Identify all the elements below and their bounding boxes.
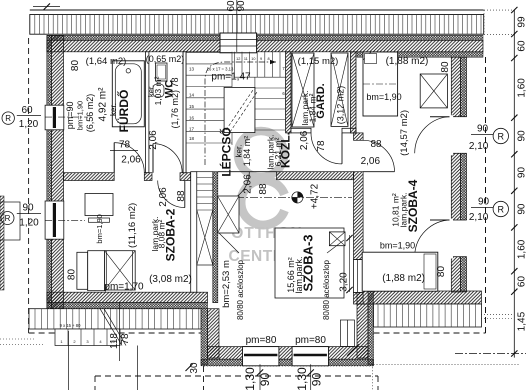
left wall <box>51 35 63 308</box>
GARD closet crossed boxes <box>292 53 314 127</box>
svg-text:9 x 15 + 80: 9 x 15 + 80 <box>60 323 82 328</box>
svg-text:2,06: 2,06 <box>121 155 141 166</box>
right wall <box>451 57 460 292</box>
svg-text:R: R <box>498 205 505 215</box>
SZOBA-3 big rect <box>275 228 344 298</box>
svg-text:ker.: ker. <box>146 85 155 97</box>
svg-text:pm=80: pm=80 <box>246 335 277 346</box>
wall GARD south <box>291 128 311 133</box>
svg-text:pm=80: pm=80 <box>295 335 326 346</box>
svg-text:2,06: 2,06 <box>158 187 169 207</box>
wall SZOBA-3/4 lower segment <box>354 292 364 304</box>
wall GARD / SZOBA-4 <box>351 52 357 133</box>
svg-text:90: 90 <box>258 373 272 387</box>
svg-text:8: 8 <box>268 57 270 61</box>
left wall insulation <box>47 35 52 308</box>
top wall inner insulation right part <box>357 52 483 57</box>
svg-text:60: 60 <box>21 105 33 116</box>
svg-text:60: 60 <box>516 40 527 52</box>
GARD door <box>311 133 342 164</box>
svg-text:pm=90: pm=90 <box>65 102 75 130</box>
exterior stairs lower steps 1-5 <box>55 329 120 346</box>
door right wall lower 90/2,10 <box>450 220 468 257</box>
wall between FURDO and WC <box>146 52 149 173</box>
WC fixtures <box>156 63 168 81</box>
door right wall upper 90/2,10 <box>450 117 468 154</box>
wall KOZL / SZOBA-4 with door opening <box>354 133 364 140</box>
svg-text:(1,88 m2): (1,88 m2) <box>386 56 429 67</box>
dotted reference lines top right <box>484 9 516 11</box>
SZOBA-2 door 88/2,06 <box>158 181 185 208</box>
dashed eaves outline left <box>28 38 30 333</box>
svg-text:(14,57 m2): (14,57 m2) <box>399 110 410 156</box>
FURDO bathtub <box>112 61 144 127</box>
svg-text:78: 78 <box>119 140 131 151</box>
bottom left dims 78/118 <box>119 302 121 361</box>
level marker +4,72 <box>292 192 303 203</box>
floor edge line KOZL-SZOBA3 <box>218 171 277 173</box>
svg-text:80: 80 <box>436 266 447 278</box>
svg-text:bm=1,90: bm=1,90 <box>366 92 401 102</box>
svg-text:80: 80 <box>70 60 81 72</box>
bay left wall insulation <box>201 309 208 365</box>
wall between WC and stair <box>183 52 186 173</box>
svg-text:90: 90 <box>478 197 490 208</box>
svg-text:12: 12 <box>236 57 240 61</box>
bay right wall <box>357 304 368 358</box>
svg-text:13: 13 <box>189 66 195 71</box>
svg-text:30: 30 <box>189 362 200 374</box>
svg-text:(11,16 m2): (11,16 m2) <box>127 203 138 248</box>
roof eaves band <box>30 9 484 11</box>
bottom bay dimension chains <box>259 364 261 390</box>
SZOBA-4 crossed box top right <box>420 74 447 108</box>
svg-text:90: 90 <box>236 0 247 12</box>
svg-text:4,92 m²: 4,92 m² <box>98 87 109 122</box>
door jambs right wall <box>450 115 454 118</box>
svg-text:16: 16 <box>189 115 195 120</box>
svg-text:R: R <box>498 132 505 142</box>
dashed eaves outline right <box>485 57 487 333</box>
bay bottom wall <box>208 347 369 360</box>
svg-text:6,21 m²: 6,21 m² <box>273 137 283 166</box>
dim 30 right bay <box>347 344 359 356</box>
svg-text:2,06: 2,06 <box>361 156 381 167</box>
bay left wall <box>208 309 220 358</box>
svg-text:88: 88 <box>258 183 269 195</box>
svg-text:ker.: ker. <box>109 103 118 116</box>
SZOBA-4 bed lower <box>362 252 438 291</box>
svg-text:11: 11 <box>244 57 248 61</box>
svg-text:+4,72: +4,72 <box>310 183 321 209</box>
svg-text:90: 90 <box>516 130 527 142</box>
svg-text:(6,56 m2): (6,56 m2) <box>85 94 95 133</box>
svg-text:(1,88 m2): (1,88 m2) <box>382 273 425 284</box>
svg-text:99: 99 <box>516 16 527 28</box>
wall KOZL south <box>277 172 354 180</box>
radiator near bay right wall <box>340 320 354 346</box>
svg-text:(1,15 m2): (1,15 m2) <box>298 56 339 67</box>
svg-text:R: R <box>5 214 11 223</box>
svg-text:118: 118 <box>109 333 120 349</box>
bay window 2 pm=80 <box>292 347 328 366</box>
left dimension window2 <box>0 202 20 240</box>
svg-text:2,06: 2,06 <box>148 130 159 150</box>
svg-text:1,20: 1,20 <box>19 218 39 229</box>
svg-text:1,30: 1,30 <box>243 367 257 390</box>
dim 30 left bay <box>186 364 193 371</box>
door KOZL to SZOBA-4 88/2,06 <box>363 140 394 171</box>
svg-text:88: 88 <box>370 139 382 150</box>
WC door <box>153 144 182 173</box>
svg-text:1,60: 1,60 <box>516 239 527 259</box>
svg-text:15,66 m²: 15,66 m² <box>286 257 296 293</box>
SZOBA-2 wardrobe crossed <box>105 251 136 290</box>
FURDO door <box>114 143 144 173</box>
svg-text:88: 88 <box>176 190 187 202</box>
svg-text:90: 90 <box>516 167 527 179</box>
wall under FURDO/WC with openings <box>64 173 115 181</box>
svg-text:10,81 m²: 10,81 m² <box>390 193 400 227</box>
svg-text:3,20: 3,20 <box>339 272 350 292</box>
SZOBA-4 bed upper <box>363 52 398 116</box>
svg-text:90: 90 <box>516 203 527 215</box>
SZOBA-3 column right crossed <box>329 232 345 246</box>
svg-text:FÜRDŐ: FÜRDŐ <box>116 90 131 133</box>
svg-text:R: R <box>5 114 11 123</box>
svg-text:2,10: 2,10 <box>469 141 489 152</box>
wall stair flight east (szoba-3 side) <box>213 172 218 303</box>
right dimension chain <box>513 10 515 358</box>
svg-text:14: 14 <box>189 93 195 98</box>
stair centre void <box>224 87 255 132</box>
door KOZL to stair 88/2,06 <box>218 172 249 203</box>
left dimension window1 <box>2 112 14 124</box>
svg-text:bm=1,90: bm=1,90 <box>75 101 84 130</box>
svg-text:bm=1,90: bm=1,90 <box>380 241 415 251</box>
svg-text:(0,65 m2): (0,65 m2) <box>146 54 185 64</box>
bottom wall left section <box>47 292 208 302</box>
svg-text:17: 17 <box>189 127 195 132</box>
niche in SZOBA-3/4 wall <box>354 260 364 293</box>
svg-text:(3,08 m2): (3,08 m2) <box>149 274 192 285</box>
window left wall upper pm=90 <box>45 105 64 130</box>
dashed projection bottom <box>95 375 378 377</box>
svg-text:1,84 m²: 1,84 m² <box>242 136 252 167</box>
svg-text:(1,64 m2): (1,64 m2) <box>86 56 127 67</box>
wall SZOBA-2 east <box>191 172 197 293</box>
window left wall lower pm=90 <box>45 201 64 239</box>
svg-text:8,08 m²: 8,08 m² <box>157 219 167 248</box>
svg-text:60: 60 <box>516 276 527 288</box>
stair treads upper flight <box>186 52 286 145</box>
svg-text:1,20: 1,20 <box>19 119 39 130</box>
top wall <box>47 40 483 52</box>
svg-text:18: 18 <box>189 136 195 141</box>
svg-text:78: 78 <box>316 140 327 152</box>
svg-text:(1,76 m2) 78: (1,76 m2) 78 <box>170 77 180 128</box>
SZOBA-2 furniture desk <box>85 194 113 216</box>
terrace bottom right treads <box>374 304 482 327</box>
svg-text:15: 15 <box>189 104 195 109</box>
svg-text:10: 10 <box>251 57 255 61</box>
svg-text:9: 9 <box>260 57 262 61</box>
svg-text:80: 80 <box>440 61 451 73</box>
svg-text:bm=2,53 m: bm=2,53 m <box>221 260 232 308</box>
bay window 1 pm=80 <box>243 347 279 366</box>
stair window top wall <box>220 33 257 53</box>
stair walk line <box>205 62 276 165</box>
svg-text:78: 78 <box>120 333 131 345</box>
svg-text:1,60: 1,60 <box>516 78 527 98</box>
svg-text:pm=1,47: pm=1,47 <box>211 72 251 83</box>
svg-text:1,30: 1,30 <box>295 367 309 390</box>
SZOBA-3 wardrobe crossed left <box>218 196 240 233</box>
svg-text:80: 80 <box>67 269 78 281</box>
svg-text:(3,12 m2): (3,12 m2) <box>335 86 345 125</box>
svg-text:1,84 m²: 1,84 m² <box>307 93 317 122</box>
top dimension 60/90 <box>236 0 238 52</box>
svg-text:pm=1,70: pm=1,70 <box>104 282 144 293</box>
left edge hatch strip <box>0 196 4 290</box>
exterior stairs bottom left treads <box>29 309 201 329</box>
svg-text:LÉPCSŐ: LÉPCSŐ <box>218 127 233 176</box>
svg-text:1,45: 1,45 <box>516 311 527 331</box>
svg-text:80/80 acéloszlop: 80/80 acéloszlop <box>236 259 245 320</box>
svg-text:bm=1,90: bm=1,90 <box>95 214 104 243</box>
svg-text:2,06: 2,06 <box>299 130 310 150</box>
svg-text:90: 90 <box>22 203 34 214</box>
wall stair west <box>183 52 186 173</box>
svg-text:90: 90 <box>477 124 489 135</box>
svg-text:90: 90 <box>309 373 323 387</box>
top wall insulation <box>47 35 483 40</box>
svg-text:2,10: 2,10 <box>469 212 489 223</box>
stair down flight between walls <box>197 172 213 265</box>
SZOBA-2 bed <box>77 252 88 289</box>
svg-text:80/80 acéloszlop: 80/80 acéloszlop <box>322 259 331 320</box>
watermark otthon centrum logo <box>238 131 285 225</box>
bottom wall right section <box>357 291 482 304</box>
wall stair east / GARD west <box>286 52 291 133</box>
dotted reference lines bottom right <box>466 313 514 315</box>
svg-text:2,06: 2,06 <box>243 174 254 194</box>
svg-text:SZOBA-4: SZOBA-4 <box>406 179 420 232</box>
